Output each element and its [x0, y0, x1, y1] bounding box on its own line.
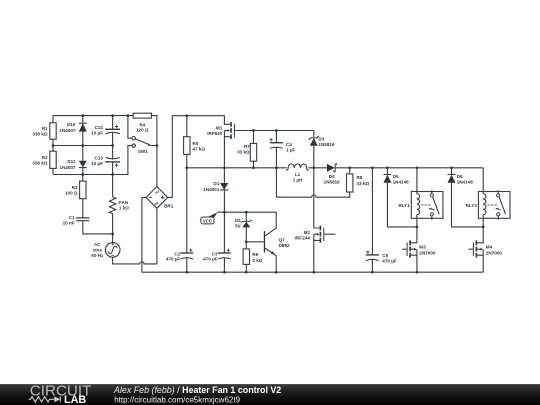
- svg-text:120 Ω: 120 Ω: [136, 128, 149, 133]
- resistor R7 33k box: [250, 144, 256, 162]
- svg-text:R1: R1: [42, 126, 48, 131]
- wire M4 body stub: [477, 248, 480, 250]
- capacitor C1 10nF: [76, 218, 89, 221]
- svg-text:1N5819: 1N5819: [324, 179, 341, 184]
- svg-text:1N4007: 1N4007: [59, 128, 76, 133]
- diode D11 1N4007: [79, 161, 87, 168]
- svg-text:D10: D10: [67, 122, 76, 127]
- wire bridge left corner to ground rail: [142, 197, 146, 272]
- wire M3 gate stub: [402, 248, 406, 250]
- wire AC bottom to bridge bottom (with hop): [113, 257, 157, 264]
- wire M1 gate line to R7 top: [235, 130, 254, 132]
- svg-text:IRFZ44: IRFZ44: [295, 236, 311, 241]
- wire C4 column: [275, 131, 277, 168]
- wire ground bottom rail: [142, 271, 483, 273]
- capacitor C14 10uF polarized: [105, 125, 120, 134]
- svg-text:10 µF: 10 µF: [91, 131, 103, 136]
- svg-text:M4: M4: [486, 245, 493, 250]
- wire D5 column and link to RLY1 coil bottom: [387, 168, 417, 227]
- schottky diode D3 1N5819: [309, 136, 319, 145]
- zener diode D2 5V: [241, 220, 252, 228]
- svg-text:SW1: SW1: [138, 149, 148, 154]
- svg-text:R5: R5: [192, 141, 198, 146]
- svg-text:470 µF: 470 µF: [203, 256, 218, 261]
- wire Q7 base: [246, 241, 263, 243]
- svg-text:C5: C5: [382, 253, 388, 258]
- svg-text:BR1: BR1: [164, 204, 174, 209]
- wire mid rail (R1/R2 junction to C14/C13): [53, 145, 113, 147]
- mosfet M4 2N7000: [473, 240, 483, 257]
- svg-text:Q7: Q7: [279, 237, 286, 242]
- wire M1 body stub: [224, 130, 227, 132]
- wire R7 column: [253, 131, 255, 168]
- wire M2 source stub and source column: [314, 234, 320, 272]
- wire R8 column top: [349, 168, 351, 174]
- transistor Q7 D882: [264, 231, 275, 254]
- wire C13 column: [112, 146, 114, 175]
- relay RLY2 contacts: [487, 190, 505, 220]
- svg-text:IRF640: IRF640: [207, 131, 223, 136]
- svg-text:R3: R3: [72, 185, 78, 190]
- wire M2 gate stub: [324, 233, 335, 235]
- resistor R8 33k box: [347, 174, 353, 192]
- wire M1 source / D1 / C3 column: [223, 131, 225, 273]
- svg-text:VCC: VCC: [203, 218, 213, 223]
- svg-text:RLY1: RLY1: [398, 203, 410, 208]
- svg-text:R7: R7: [244, 144, 250, 149]
- capacitor C13 10uF polarized: [105, 158, 120, 167]
- resistor R6 2k box: [243, 249, 249, 265]
- svg-text:RLY2: RLY2: [466, 203, 478, 208]
- svg-text:2N7000: 2N7000: [486, 250, 503, 255]
- mosfet M3 2N7000: [407, 240, 417, 257]
- diode D6 1N4148: [448, 175, 456, 183]
- svg-text:D5: D5: [393, 174, 399, 179]
- wire FAN column stubs: [112, 175, 114, 243]
- wire Q7 emitter: [265, 248, 276, 272]
- svg-text:1N4148: 1N4148: [393, 180, 410, 185]
- svg-text:1 µF: 1 µF: [286, 148, 295, 153]
- diode D1 1N4001: [220, 183, 228, 190]
- wire C14 column: [112, 116, 114, 146]
- VCC net flag: [201, 212, 218, 224]
- wire M4 drain from relay coil: [477, 227, 483, 243]
- resistor R4 120 box: [133, 113, 151, 118]
- svg-text:http://circuitlab.com/ce5kmxjc: http://circuitlab.com/ce5kmxjcw62t9: [114, 395, 240, 404]
- wire M4 source stub and column: [477, 249, 483, 272]
- svg-text:D1: D1: [213, 181, 219, 186]
- svg-text:D11: D11: [67, 159, 76, 164]
- svg-text:AC: AC: [94, 242, 101, 247]
- wire top rail left (R1/D10/C14/R4 to SW1 pole and bridge top): [53, 116, 157, 187]
- mosfet M1 IRF640: [227, 122, 235, 139]
- svg-text:1N4007: 1N4007: [59, 165, 76, 170]
- svg-text:100 Ω: 100 Ω: [65, 191, 78, 196]
- wire M2 drain column: [314, 168, 320, 228]
- svg-text:FAN: FAN: [119, 200, 129, 205]
- wire R1 bottom to mid rail: [52, 139, 54, 145]
- wire gate line R7 to C4 to D3: [254, 131, 314, 138]
- wire D10 column: [82, 116, 84, 146]
- svg-text:Alex Feb (febb) / Heater Fan 1: Alex Feb (febb) / Heater Fan 1 control V…: [113, 385, 281, 395]
- wire D3 bottom to rail: [313, 146, 315, 168]
- svg-text:D4: D4: [329, 174, 335, 179]
- AC source sine 60Hz: [105, 243, 120, 258]
- svg-text:470 µF: 470 µF: [166, 256, 181, 261]
- capacitor C4 1uF polarized: [270, 138, 283, 148]
- resistor R2 330k box: [50, 151, 56, 168]
- svg-text:10 µF: 10 µF: [91, 161, 103, 166]
- svg-text:330 kΩ: 330 kΩ: [32, 161, 47, 166]
- svg-text:60 Hz: 60 Hz: [91, 253, 104, 258]
- wire M4 gate stub: [469, 248, 473, 250]
- wire VCC node to Q7 collector: [217, 211, 276, 213]
- svg-text:10 nF: 10 nF: [63, 221, 75, 226]
- svg-text:D2: D2: [235, 218, 241, 223]
- svg-text:1N4001: 1N4001: [203, 187, 220, 192]
- capacitor C2 470uF polarized: [180, 249, 193, 259]
- svg-text:M3: M3: [419, 245, 426, 250]
- wire bridge bottom corner down to AC wire: [156, 208, 158, 264]
- svg-text:C1: C1: [69, 215, 75, 220]
- wire D2 top stub: [245, 212, 247, 221]
- svg-text:D882: D882: [279, 243, 290, 248]
- diode D10 1N4007: [79, 123, 87, 131]
- svg-text:330 kΩ: 330 kΩ: [32, 132, 47, 137]
- CircuitLab logo resistor zigzag and diode: [29, 397, 61, 403]
- wire main mid rail segment 1: [187, 167, 287, 169]
- wire R3 column: [82, 175, 84, 218]
- wire M3 drain from relay coil: [411, 227, 417, 243]
- relay RLY2 coil: [483, 168, 486, 227]
- relay RLY1 coil: [417, 168, 420, 227]
- relay RLY1 box: [411, 192, 443, 219]
- wire C5 column: [371, 168, 373, 272]
- wire C4/rail junction to R8 bottom (with hop over M2 drain): [276, 168, 349, 197]
- capacitor C5 470uF polarized: [366, 250, 379, 260]
- svg-text:LAB: LAB: [64, 394, 86, 405]
- svg-text:2N7000: 2N7000: [419, 250, 436, 255]
- wire R6 bottom: [245, 264, 247, 272]
- wire R2 stubs: [52, 146, 54, 175]
- wire R5 column: [186, 116, 188, 168]
- capacitor C3 470uF polarized: [218, 249, 231, 259]
- resistor R1 330k box: [50, 123, 56, 140]
- wire M3 source stub and column: [411, 249, 417, 272]
- resistor R5 47k box: [184, 137, 190, 155]
- wire C1 bottom to AC column: [83, 221, 113, 234]
- switch SW1: [132, 137, 151, 148]
- wire D6 column and link to RLY2 coil bottom: [452, 168, 484, 227]
- svg-text:5V: 5V: [235, 224, 242, 229]
- wire R1 top stub: [52, 116, 54, 123]
- svg-text:2 kΩ: 2 kΩ: [252, 258, 262, 263]
- wire SW1 upper throw branch: [128, 116, 132, 139]
- svg-text:M2: M2: [304, 230, 311, 235]
- wire main mid rail segment 3: [335, 167, 483, 169]
- wire bridge right corner to top rail and M1 drain: [168, 116, 231, 198]
- wire C2 column: [186, 168, 188, 272]
- mosfet M2 IRFZ44: [317, 226, 325, 243]
- relay RLY2 box: [478, 192, 510, 219]
- wire Q7 collector: [265, 212, 276, 236]
- wire lower rail (R2 bottom to SW1 lower throw): [53, 146, 132, 175]
- resistor FAN 1k zigzag: [109, 197, 115, 214]
- relay RLY1 contacts: [421, 190, 439, 220]
- svg-text:L1: L1: [295, 172, 301, 177]
- wire M2 body stub: [314, 233, 317, 235]
- svg-text:470 µF: 470 µF: [382, 259, 397, 264]
- wire D11 column: [82, 146, 84, 175]
- wire main mid rail segment 2: [308, 167, 327, 169]
- svg-text:1N5819: 1N5819: [318, 142, 335, 147]
- svg-text:D6: D6: [457, 174, 463, 179]
- wire M3 body stub: [411, 248, 414, 250]
- svg-text:47 kΩ: 47 kΩ: [192, 147, 205, 152]
- svg-text:R8: R8: [357, 175, 363, 180]
- wire D2 bottom to R6 top: [245, 227, 247, 249]
- svg-text:1N4148: 1N4148: [457, 180, 474, 185]
- svg-text:1 kΩ: 1 kΩ: [119, 206, 129, 211]
- wire M1 source stub: [224, 136, 230, 138]
- inductor L1 1uH: [286, 164, 309, 170]
- svg-text:1 µH: 1 µH: [293, 178, 303, 183]
- wire SW1 pole to bridge column: [151, 145, 157, 147]
- svg-text:M1: M1: [216, 126, 223, 131]
- svg-text:33 kΩ: 33 kΩ: [237, 150, 250, 155]
- diode D5 1N4148: [383, 175, 391, 183]
- svg-text:C14: C14: [95, 125, 104, 130]
- svg-text:C13: C13: [95, 156, 104, 161]
- svg-text:R2: R2: [42, 155, 48, 160]
- footer bar: [0, 384, 540, 405]
- svg-text:R6: R6: [252, 252, 258, 257]
- svg-text:D3: D3: [318, 137, 324, 142]
- svg-text:33 kΩ: 33 kΩ: [357, 181, 370, 186]
- bridge rectifier BR1: [146, 187, 168, 209]
- svg-text:sine: sine: [93, 248, 103, 253]
- svg-text:C4: C4: [286, 142, 292, 147]
- resistor R3 100 box: [80, 181, 86, 199]
- schottky diode D4 1N5819: [327, 164, 337, 172]
